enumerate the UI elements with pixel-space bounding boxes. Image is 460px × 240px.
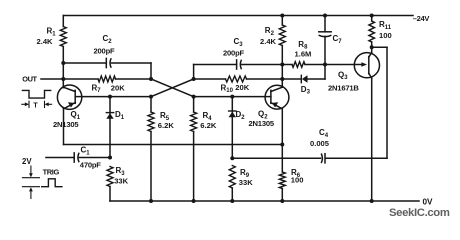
node C2/R1 junction: [61, 61, 65, 65]
node D2 top: [230, 95, 234, 99]
wire common emitter line: [64, 144, 283, 146]
wire R1 bottom to C2 node: [62, 47, 64, 64]
wire C3 right: [242, 64, 282, 66]
svg-text:2.4K: 2.4K: [37, 37, 54, 46]
wire C1 right: [79, 157, 110, 159]
transistor Q1 base bar: [74, 90, 76, 103]
node R11 rail: [370, 14, 374, 18]
wire R11 bottom: [371, 42, 373, 47]
svg-text:2N1671B: 2N1671B: [328, 83, 359, 92]
svg-text:2.4K: 2.4K: [260, 37, 277, 46]
wire R6 top: [281, 145, 283, 173]
node Q2 collector C3/R8: [280, 63, 284, 67]
marker 2V bottom bar: [23, 186, 40, 188]
wire C2 node to OUT node: [62, 63, 64, 79]
resistor R2: [279, 25, 285, 46]
transistor Q3 base bar: [368, 57, 370, 74]
waveform TRIG pulse: [42, 179, 62, 187]
wire R8 left: [282, 64, 292, 66]
node R8/C7/D3 junction: [323, 63, 327, 67]
node D1 top: [108, 95, 112, 99]
transistor Q1 emitter lead: [64, 103, 76, 109]
wire diagonal X2 to Y1: [151, 79, 194, 97]
svg-text:6.2K: 6.2K: [158, 121, 175, 130]
wire D2 node to Q2 base: [232, 96, 265, 98]
node R6 rail: [280, 199, 284, 203]
wire TRIG to C1: [46, 157, 74, 159]
waveform OUT pulse: [22, 90, 50, 98]
wire R5 bottom: [150, 132, 152, 202]
capacitor C2: [105, 58, 107, 67]
wire C2 left: [63, 62, 106, 64]
transistor Q2 emitter lead: [271, 103, 282, 109]
node R4 rail: [192, 199, 196, 203]
node X1: [149, 77, 153, 81]
marker 2V up arrow: [30, 191, 32, 199]
wire D3 right riser: [324, 65, 326, 80]
wire Q1 emitter down: [63, 109, 65, 145]
node Y1: [149, 95, 153, 99]
node R2 rail: [280, 14, 284, 18]
diode D3: [282, 78, 301, 80]
transistor Q3 base1 lead: [369, 73, 372, 78]
wire C4 left: [232, 157, 320, 159]
wire -24V top supply rail: [63, 15, 413, 17]
svg-text:20K: 20K: [235, 83, 249, 92]
svg-text:200pF: 200pF: [223, 49, 245, 58]
node C4 left junction: [230, 156, 234, 160]
marker T right arrow: [48, 103, 52, 105]
wire Y2 to D2 node: [194, 96, 233, 98]
svg-text:–24V: –24V: [413, 14, 430, 23]
svg-text:2N1305: 2N1305: [53, 120, 79, 129]
wire Q2 emitter down: [281, 109, 283, 145]
transistor Q3 base2 lead: [369, 52, 372, 57]
marker 2V down arrow: [30, 166, 32, 174]
wire R7 left: [63, 78, 98, 80]
wire C3 left: [194, 64, 237, 66]
wire R10 left: [194, 78, 226, 80]
wire Q2 collector up: [281, 79, 283, 87]
resistor R10: [226, 76, 247, 82]
resistor R4: [191, 112, 197, 132]
marker 2V top bar: [23, 177, 40, 179]
wire D1 node to Y1: [110, 96, 151, 98]
wire R3 bottom: [109, 187, 111, 202]
wire R4 top: [193, 97, 195, 112]
resistor R5: [148, 112, 154, 132]
node X2: [192, 77, 196, 81]
marker T left arrow: [22, 103, 26, 105]
wire Q3 emitter lead from node: [325, 64, 354, 66]
wire Q1 base to D1 node: [82, 96, 110, 98]
marker T left tick: [28, 101, 30, 107]
resistor R8: [292, 62, 305, 68]
transistor Q1 base lead: [75, 96, 82, 98]
wire C4 right: [325, 157, 387, 159]
transistor Q2 base lead: [265, 96, 271, 98]
svg-text:1.6M: 1.6M: [295, 49, 312, 58]
node R11 bottom: [370, 45, 374, 49]
svg-text:33K: 33K: [114, 176, 128, 185]
wire R4 bottom: [193, 132, 195, 202]
wire C2 right: [112, 62, 152, 64]
resistor R6: [279, 172, 285, 189]
wire X1 drop: [150, 63, 152, 79]
svg-text:OUT: OUT: [22, 74, 37, 83]
transistor Q2 collector lead: [271, 87, 282, 91]
node Q3 B1 rail: [370, 199, 374, 203]
svg-text:6.2K: 6.2K: [200, 121, 217, 130]
node Q2 collector R10/D3: [280, 77, 284, 81]
resistor R3: [107, 167, 113, 187]
transistor Q2 circle: [265, 85, 289, 109]
node R5 rail: [149, 199, 153, 203]
wire R5 top: [150, 97, 152, 112]
svg-text:2N1305: 2N1305: [249, 119, 275, 128]
wire R7 right: [116, 78, 152, 80]
wire R8 right: [305, 64, 325, 66]
node Y2: [192, 95, 196, 99]
svg-text:20K: 20K: [111, 83, 125, 92]
wire 0V bottom rail: [110, 200, 419, 202]
wire C7 top: [324, 16, 326, 32]
resistor R9: [229, 166, 235, 189]
node C7 rail: [323, 14, 327, 18]
wire diagonal X1 to Y2: [151, 79, 194, 97]
svg-text:SeekIC.com: SeekIC.com: [389, 207, 450, 219]
wire C7 bottom: [324, 36, 326, 64]
wire Q3 B1 down: [371, 78, 373, 201]
transistor Q2 base bar: [270, 90, 272, 103]
capacitor C3: [236, 60, 238, 69]
transistor Q1 collector lead: [63, 87, 75, 91]
svg-text:T: T: [33, 103, 38, 110]
wire R2 bottom: [281, 46, 283, 65]
wire R6 bottom: [281, 189, 283, 202]
svg-text:470pF: 470pF: [80, 161, 102, 170]
node Q2 emitter junction: [280, 143, 284, 147]
wire X2 riser: [193, 65, 195, 80]
resistor R1: [60, 27, 66, 47]
node R9 rail: [230, 199, 234, 203]
marker T right tick: [44, 101, 46, 107]
wire Q3 B2 up: [371, 47, 373, 52]
wire R10 right: [247, 78, 283, 80]
svg-text:TRIG: TRIG: [43, 167, 60, 176]
svg-text:200pF: 200pF: [94, 47, 116, 56]
node OUT junction: [61, 77, 65, 81]
wire C4 riser: [386, 47, 388, 158]
resistor R11: [369, 21, 375, 42]
svg-text:0V: 0V: [423, 198, 434, 207]
svg-text:100: 100: [291, 176, 304, 185]
resistor R7: [98, 76, 116, 82]
wire R11 top: [371, 16, 373, 22]
wire OUT node to Q1 collector: [62, 79, 64, 88]
transistor Q3 emitter arrow: [354, 64, 361, 66]
svg-text:2V: 2V: [22, 157, 32, 166]
svg-text:0.005: 0.005: [310, 139, 330, 148]
wire R9 bottom: [231, 188, 233, 201]
diode D2: [231, 97, 233, 159]
wire R1 top: [62, 16, 64, 27]
capacitor C1: [73, 153, 75, 162]
wire R11 node to C4 riser: [372, 46, 387, 48]
wire R2 top: [281, 16, 283, 26]
transistor Q1 circle: [57, 85, 81, 109]
node C1/D1/R3 junction: [108, 156, 112, 160]
svg-text:100: 100: [379, 31, 392, 40]
capacitor C7: [319, 31, 331, 33]
transistor Q3 circle: [354, 53, 379, 78]
capacitor C4: [321, 154, 322, 164]
diode D1: [109, 97, 111, 158]
wire OUT lead: [41, 78, 63, 80]
wire Q2 collector node up: [281, 65, 283, 80]
svg-text:33K: 33K: [239, 178, 253, 187]
